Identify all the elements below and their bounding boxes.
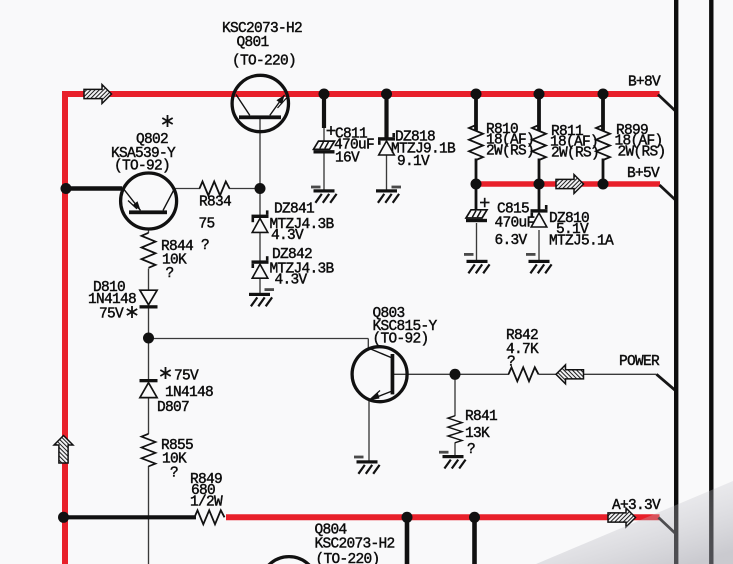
svg-text:B+5V: B+5V <box>627 166 660 182</box>
svg-text:?: ? <box>201 238 209 254</box>
svg-text:6.3V: 6.3V <box>495 233 528 249</box>
svg-text:2W(RS): 2W(RS) <box>486 144 534 160</box>
svg-text:16V: 16V <box>335 151 360 167</box>
svg-text:13K: 13K <box>465 426 490 442</box>
svg-text:?: ? <box>170 466 178 482</box>
svg-text:75: 75 <box>199 217 215 233</box>
svg-text:?: ? <box>166 266 174 282</box>
svg-text:(TO-220): (TO-220) <box>316 552 380 564</box>
svg-text:B+8V: B+8V <box>628 75 661 91</box>
svg-text:(TO-92): (TO-92) <box>373 332 429 348</box>
svg-text:D807: D807 <box>157 400 189 416</box>
svg-text:KSC2073-H2: KSC2073-H2 <box>315 537 395 553</box>
svg-text:(TO-220): (TO-220) <box>232 54 296 70</box>
svg-text:1/2W: 1/2W <box>190 495 223 511</box>
svg-text:?: ? <box>507 355 515 371</box>
svg-text:DZ841: DZ841 <box>274 202 314 218</box>
svg-text:(TO-92): (TO-92) <box>114 159 170 175</box>
svg-text:1N4148: 1N4148 <box>165 385 213 401</box>
svg-text:?: ? <box>467 442 475 458</box>
svg-text:4.3V: 4.3V <box>271 228 304 244</box>
svg-text:2W(RS): 2W(RS) <box>618 145 666 161</box>
svg-text:Q801: Q801 <box>237 35 269 51</box>
svg-text:75V: 75V <box>99 307 124 323</box>
svg-text:POWER: POWER <box>619 354 660 370</box>
svg-text:470uF: 470uF <box>495 216 535 232</box>
svg-text:75V: 75V <box>174 369 199 385</box>
svg-text:9.1V: 9.1V <box>397 154 430 170</box>
svg-text:4.3V: 4.3V <box>275 273 308 289</box>
svg-text:R834: R834 <box>199 195 231 211</box>
svg-text:R841: R841 <box>465 409 497 425</box>
svg-text:2W(RS): 2W(RS) <box>551 146 599 162</box>
svg-text:MTZJ5.1A: MTZJ5.1A <box>549 234 614 250</box>
svg-text:A+3.3V: A+3.3V <box>612 498 661 514</box>
